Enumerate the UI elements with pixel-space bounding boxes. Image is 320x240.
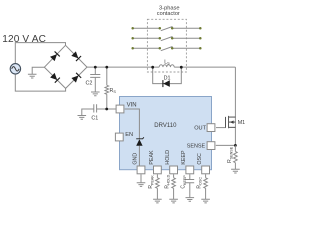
resistor R_SENSE: [234, 145, 236, 169]
contact dots row 1: [131, 27, 134, 30]
diode bridge bottom-right: [71, 73, 81, 83]
svg-text:C2: C2: [86, 80, 93, 86]
bridge rectifier diamond: [44, 45, 87, 88]
ground (GND pin): [140, 174, 142, 183]
inductor LS (contactor coil): [159, 65, 174, 67]
pin OSC: [202, 166, 210, 174]
contactor phase line 1: [133, 27, 201, 29]
svg-text:120 V AC: 120 V AC: [2, 34, 46, 45]
contactor phase line 2: [133, 37, 201, 39]
node: rail/RS junction: [105, 66, 108, 69]
contactor switch blade 1: [161, 27, 173, 31]
svg-text:HOLD: HOLD: [165, 150, 171, 165]
svg-text:M1: M1: [238, 120, 246, 126]
contact dots row 3: [131, 47, 134, 50]
svg-text:PEAK: PEAK: [149, 150, 155, 165]
pin VIN: [116, 105, 124, 113]
contactor switch blade 3: [161, 47, 173, 51]
capacitor C2: [90, 67, 100, 92]
pin SENSE: [207, 142, 215, 150]
svg-text:EN: EN: [125, 132, 133, 138]
node: rail/C2 junction: [94, 66, 97, 69]
node: C1/RS/VIN junction: [105, 108, 108, 111]
wire: AC loop bottom (source bottom to bridge bottom corner): [15, 74, 65, 91]
svg-text:D1: D1: [164, 76, 171, 82]
internal zener from VIN to GND: [125, 109, 140, 166]
pin PEAK: [154, 166, 162, 174]
ground (bridge left corner): [32, 67, 44, 74]
node: rail/D1 left junction: [151, 66, 154, 69]
svg-text:OUT: OUT: [194, 126, 206, 132]
contactor switch blade 2: [161, 37, 173, 41]
svg-text:OSC: OSC: [197, 153, 203, 165]
wire: AC loop top (source top to bridge top corner): [15, 43, 65, 64]
svg-text:GND: GND: [132, 153, 138, 165]
resistor R_PEAK: [156, 174, 158, 199]
wire: DC+ rail: [87, 66, 235, 68]
svg-text:C1: C1: [91, 116, 98, 122]
op-amp / IC U1 DRV110 body: [120, 97, 212, 170]
diode bridge top-left: [50, 51, 60, 61]
pin GND: [137, 166, 145, 174]
transistor M1 (N-MOSFET): [226, 116, 236, 128]
contact dots row 2: [131, 37, 134, 40]
diode D1: [163, 80, 170, 87]
wire: SENSE to source node: [216, 144, 236, 146]
capacitor C1: [94, 104, 117, 112]
pin HOLD: [170, 166, 178, 174]
resistor R_HOLD: [173, 174, 175, 199]
AC source V1: [10, 64, 20, 74]
contactor phase line 3: [133, 47, 201, 49]
pin EN: [115, 133, 123, 141]
resistor RS: [106, 67, 108, 109]
ground (R_SENSE): [231, 169, 240, 173]
svg-text:DRV110: DRV110: [154, 123, 177, 129]
ground (C2): [91, 92, 100, 96]
pin OUT: [207, 124, 215, 132]
diode bridge top-right: [71, 51, 81, 61]
node: rail/D1 right junction: [180, 66, 183, 69]
pin KEEP: [186, 166, 194, 174]
svg-text:SENSE: SENSE: [187, 144, 206, 150]
resistor R_OSC: [205, 174, 207, 199]
wire: drain drop on right: [234, 67, 236, 145]
ground (C1): [82, 109, 94, 116]
svg-text:VIN: VIN: [127, 103, 137, 109]
svg-text:KEEP: KEEP: [181, 150, 187, 165]
diode bridge bottom-left: [50, 73, 60, 83]
wire: OUT to gate: [216, 127, 226, 129]
ground (R_OSC): [201, 199, 210, 203]
ground (R_HOLD): [169, 199, 178, 203]
ground (C_KEEP): [186, 198, 195, 202]
3-phase contactor enclosure (dashed): [147, 19, 186, 72]
ground (R_PEAK): [153, 199, 162, 203]
wire: D1 freewheel loop: [153, 67, 182, 83]
capacitor C_KEEP: [185, 174, 194, 197]
svg-text:contactor: contactor: [157, 11, 180, 17]
node: source/sense junction: [234, 144, 237, 147]
